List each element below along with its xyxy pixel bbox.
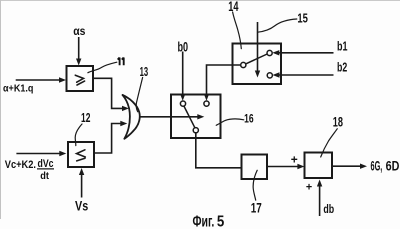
svg-text:Vc+K2.: Vc+K2. bbox=[5, 159, 36, 171]
svg-text:+: + bbox=[306, 182, 312, 194]
svg-text:Фиг.: Фиг. bbox=[193, 214, 215, 229]
svg-text:17: 17 bbox=[251, 200, 262, 216]
svg-text:db: db bbox=[323, 202, 334, 216]
svg-text:α+K1.q: α+K1.q bbox=[3, 83, 33, 94]
svg-text:+: + bbox=[291, 152, 298, 166]
svg-text:b1: b1 bbox=[337, 38, 348, 53]
svg-text:12: 12 bbox=[81, 110, 90, 125]
svg-text:αs: αs bbox=[73, 24, 85, 38]
svg-text:14: 14 bbox=[228, 0, 239, 14]
svg-text:Vs: Vs bbox=[75, 198, 88, 214]
svg-text:b0: b0 bbox=[178, 39, 189, 54]
svg-text:6D: 6D bbox=[386, 159, 400, 174]
svg-text:6G,: 6G, bbox=[371, 159, 383, 174]
svg-text:b2: b2 bbox=[337, 61, 347, 75]
svg-text:dt: dt bbox=[40, 171, 49, 182]
svg-text:13: 13 bbox=[140, 65, 149, 79]
svg-text:5: 5 bbox=[217, 214, 224, 229]
svg-text:dVc: dVc bbox=[38, 158, 54, 170]
svg-text:18: 18 bbox=[333, 115, 343, 130]
svg-text:16: 16 bbox=[244, 111, 254, 125]
svg-text:15: 15 bbox=[297, 12, 308, 26]
